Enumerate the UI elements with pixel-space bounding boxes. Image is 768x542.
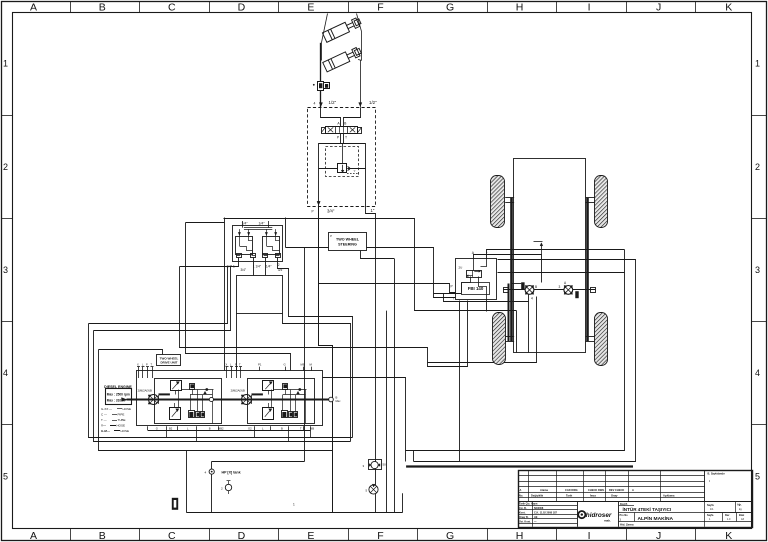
svg-text:1: 1	[293, 503, 295, 507]
svg-text:2: 2	[3, 162, 8, 172]
svg-text:G: G	[284, 362, 286, 366]
rear axle right end cap	[591, 288, 596, 293]
svg-text:E: E	[307, 1, 314, 13]
FBI inner valve	[466, 270, 481, 277]
svg-text:B: B	[99, 530, 106, 542]
revision header labels	[519, 488, 675, 498]
grid numbers left band	[3, 59, 8, 482]
revision table rows	[518, 476, 752, 502]
rear-left axle stub	[505, 336, 514, 338]
svg-text:Doğ B: Doğ B	[620, 503, 628, 506]
pump2 internal verticals	[272, 390, 306, 424]
relief pilot dashed Y line	[347, 173, 359, 175]
svg-text:1/1: 1/1	[710, 508, 714, 511]
svg-text:4: 4	[314, 102, 316, 106]
svg-text:G: G	[446, 530, 454, 542]
svg-text:T: T	[345, 136, 347, 140]
svg-text:Ağr.: Ağr.	[737, 504, 742, 507]
pump1 inner box	[155, 379, 222, 424]
arrow manifold P exit	[317, 201, 320, 205]
svg-text:AE: AE	[534, 516, 538, 519]
svg-text:C ---: C ---	[101, 413, 107, 417]
svg-text:X: X	[137, 362, 139, 366]
svg-text:İNTÜR 4TEKİ TAŞIYICI: İNTÜR 4TEKİ TAŞIYICI	[623, 506, 672, 512]
svg-text:1: 1	[3, 59, 8, 69]
svg-text:3: 3	[755, 265, 760, 275]
title block outer	[519, 471, 753, 528]
return filter RF1	[369, 484, 378, 494]
wire A to valve port A	[321, 108, 341, 127]
front-right axle stub	[586, 197, 596, 199]
svg-text:1/2": 1/2"	[329, 100, 337, 105]
wire port1 west manifold	[180, 258, 239, 267]
pump top port MB	[303, 367, 305, 371]
svg-text:MB: MB	[310, 427, 314, 431]
shaft coupling circle mid	[209, 397, 213, 401]
title cell top small row	[619, 505, 635, 507]
svg-text:REV CHECK: REV CHECK	[609, 488, 624, 492]
svg-text:Onay B.: Onay B.	[519, 516, 529, 519]
svg-text:3: 3	[559, 285, 561, 289]
svg-text:Tarih: Tarih	[566, 493, 573, 497]
wire pressure main vertical x319	[319, 206, 333, 513]
pump station text box	[157, 355, 181, 366]
wheel front-left (hatched)	[491, 176, 505, 228]
wire FBI pressure feed y283.5	[319, 284, 456, 293]
hydraulic motor HM1 (left)	[521, 282, 534, 294]
svg-text:Max: Max	[336, 399, 342, 403]
pump bottom exits	[167, 426, 311, 441]
svg-text:TWO WHEEL: TWO WHEEL	[336, 237, 360, 241]
svg-text:HOSE: HOSE	[123, 407, 132, 411]
svg-text:Sayfa: Sayfa	[707, 514, 714, 517]
hidroser logo	[578, 511, 612, 523]
wire T down to relief area	[342, 144, 344, 164]
wire left outer loop	[89, 324, 353, 438]
svg-text:HOSE: HOSE	[117, 424, 126, 428]
svg-text:F: F	[377, 530, 383, 542]
svg-text:HP [X] tank: HP [X] tank	[222, 470, 241, 474]
svg-text:G: G	[446, 1, 454, 13]
under-block junction box	[237, 276, 283, 314]
svg-text:D: D	[238, 1, 246, 13]
wire drive line to motor port	[512, 283, 522, 285]
pump2 orifice upper	[283, 384, 288, 395]
svg-text:T ---: T ---	[101, 418, 107, 422]
check valve block outer box	[224, 218, 226, 371]
svg-text:CAD DWG: CAD DWG	[565, 488, 578, 492]
wire port2 drop	[253, 258, 255, 276]
check block top gallery lines	[244, 227, 272, 229]
svg-text:B: B	[281, 427, 283, 431]
svg-text:2: 2	[278, 263, 280, 267]
wire long cross run y347.2	[180, 267, 537, 363]
breather symbol	[225, 481, 231, 495]
right small cells	[705, 501, 753, 527]
pump1 check pair lower	[196, 412, 205, 418]
svg-text:B: B	[535, 285, 537, 289]
wheel rear-right (hatched)	[595, 313, 608, 366]
pump top port G	[285, 367, 287, 371]
check valve block inner box	[233, 226, 283, 262]
pump1 gallery h line	[181, 389, 213, 391]
vehicle chassis outline	[514, 159, 586, 353]
top band column dividers	[71, 1, 696, 12]
pump bottom port labels	[156, 427, 315, 431]
svg-text:2U: 2U	[459, 266, 463, 270]
manifold enclosure (dashed) M1	[308, 108, 376, 207]
legend line 5	[101, 429, 129, 433]
svg-text:Y---: Y---	[101, 424, 106, 428]
pump2 control valve upper	[263, 381, 274, 395]
pump top port MB2	[311, 367, 313, 371]
variable pump P1 circle	[148, 393, 170, 404]
grid letters top band	[30, 1, 732, 13]
wire FBI underside to motor supply	[444, 294, 529, 302]
svg-text:B: B	[99, 1, 106, 13]
svg-text:K: K	[725, 1, 732, 13]
wire x624.5 feed from FBI 1	[624, 250, 626, 273]
svg-text:J: J	[656, 530, 661, 542]
pump bottom collection rail	[148, 430, 311, 432]
svg-text:P: P	[312, 209, 314, 213]
check block port 3	[263, 254, 268, 258]
pump1 top ports	[137, 362, 154, 378]
svg-text:A: A	[632, 488, 634, 492]
hydraulic motor HM2 (right)	[564, 285, 579, 298]
wire tank feed drop x186.4	[186, 451, 188, 513]
pump1 control valve lower	[170, 403, 181, 420]
svg-text:B: B	[336, 396, 338, 400]
drive line right (thick)	[586, 198, 589, 341]
manifold internal rail top	[318, 143, 366, 145]
arrow port A into manifold	[319, 103, 322, 107]
svg-text:B. Sayfalandır: B. Sayfalandır	[708, 472, 725, 476]
wire B to valve port B	[344, 108, 361, 127]
wire FBI A to sensor drop	[474, 255, 542, 283]
svg-text:Y: Y	[354, 169, 356, 173]
svg-text:E: E	[307, 530, 314, 542]
wire manifold T exit	[366, 144, 376, 219]
revision note cell text	[708, 472, 725, 484]
legend line 2	[101, 413, 124, 417]
pump2 control valve lower	[263, 403, 274, 420]
svg-text:FBI 140: FBI 140	[468, 286, 484, 291]
svg-text:4: 4	[531, 297, 533, 301]
svg-text:X: X	[226, 362, 228, 366]
wire valve T down	[343, 134, 345, 144]
svg-text:CHECK DWG: CHECK DWG	[588, 488, 604, 492]
svg-text:C: C	[168, 530, 176, 542]
svg-text:MB2: MB2	[218, 427, 224, 431]
shaft end circle right	[329, 397, 334, 402]
wire cylinder right line B	[360, 60, 362, 107]
wire FBI T bottom to motor line	[486, 301, 488, 312]
pump2 inner box	[248, 379, 315, 424]
svg-text:4: 4	[755, 368, 760, 378]
svg-text:Onay: Onay	[611, 493, 618, 497]
svg-text:Rev: Rev	[725, 514, 730, 517]
svg-text:I: I	[588, 530, 591, 542]
wire drain vertical x387	[386, 311, 388, 513]
svg-text:TUBE: TUBE	[118, 418, 126, 422]
svg-text:1/2": 1/2"	[369, 100, 377, 105]
wire FBI lower parallel feed	[434, 293, 462, 295]
svg-text:2(M)2A(X)B: 2(M)2A(X)B	[138, 388, 152, 392]
svg-text:1: 1	[755, 59, 760, 69]
arrow port B into manifold	[359, 103, 362, 107]
svg-text:P1: P1	[258, 362, 262, 366]
pump1 junction dot	[205, 388, 208, 391]
wire rail to relief valve	[319, 168, 338, 170]
legend line 3	[101, 418, 126, 422]
check block port 4	[276, 254, 281, 258]
svg-text:mak.: mak.	[604, 519, 611, 523]
engine to shaft link	[122, 398, 127, 402]
svg-text:Kont.: Kont.	[519, 511, 526, 514]
wire right loop inner rect	[406, 273, 625, 451]
wire port3 drop	[265, 258, 267, 276]
pilot check valve PC2	[263, 229, 280, 254]
svg-text:G: G	[156, 427, 158, 431]
wire left inner loop	[99, 350, 333, 451]
wire y311.7 drop to chassis	[516, 311, 518, 353]
svg-text:Pro No: Pro No	[620, 514, 629, 517]
svg-text:G-XX ---: G-XX ---	[101, 407, 112, 411]
diesel engine box	[106, 389, 132, 405]
svg-text:J: J	[656, 1, 661, 13]
wire left drop x185.3	[186, 223, 291, 371]
svg-text:Açıklama: Açıklama	[663, 493, 675, 497]
wire bottom rail y512.5	[186, 512, 402, 514]
svg-text:3: 3	[3, 265, 8, 275]
svg-text:Değişiklik: Değişiklik	[531, 493, 544, 497]
wire return vertical x394.5	[394, 259, 396, 513]
pilot check valve PC1	[236, 229, 253, 254]
wire relief valve to tank rail	[348, 168, 366, 170]
svg-text:P: P	[330, 234, 332, 238]
cylinder mounting plate outline	[322, 14, 328, 43]
svg-text:K: K	[725, 530, 732, 542]
svg-text:5: 5	[3, 471, 8, 481]
svg-text:T: T	[453, 297, 455, 301]
wire left mid loop top	[94, 267, 231, 331]
front-left axle stub	[505, 197, 514, 199]
svg-text:A: A	[30, 530, 37, 542]
svg-text:C: C	[168, 1, 176, 13]
svg-text:C.K. 11.02 2008 187: C.K. 11.02 2008 187	[534, 511, 558, 514]
wire left outer loop top	[89, 267, 228, 324]
wheel front-right (hatched)	[595, 176, 608, 228]
oil tank symbol (black)	[172, 498, 178, 510]
pump drive shaft (thick)	[127, 399, 329, 401]
revision table columns	[529, 470, 705, 501]
relief valve sub-enclosure (dashed)	[326, 147, 359, 177]
flow divider valve FD1 on line A	[313, 82, 330, 91]
wire textbox drop to return main	[361, 251, 395, 259]
svg-text:Ebat: Ebat	[739, 514, 744, 517]
svg-text:DRIVE UNIT: DRIVE UNIT	[160, 361, 177, 365]
rear axle cross line	[503, 289, 595, 291]
wheel rear-left (hatched)	[493, 313, 506, 365]
grid numbers right band	[755, 59, 760, 482]
wire motor1 to chassis bottom	[528, 294, 530, 352]
wire stub x402.6 up	[402, 493, 404, 512]
svg-text:NO2008: NO2008	[534, 507, 544, 510]
wire second rail y222	[186, 222, 225, 224]
wire hp tank horizontal	[212, 461, 305, 463]
pump1 relief lower-left	[189, 411, 195, 418]
svg-text:H: H	[516, 1, 524, 13]
wire cylinder left line A lower	[320, 90, 322, 107]
svg-text:P: P	[146, 362, 148, 366]
hydraulic cylinder CYL1 (top, tilted)	[322, 16, 362, 42]
legend line 1	[101, 407, 131, 411]
svg-text:D: D	[238, 530, 246, 542]
svg-text:Sayfa: Sayfa	[707, 504, 714, 507]
svg-text:P: P	[451, 284, 453, 288]
svg-text:2(M)2A(X)B: 2(M)2A(X)B	[231, 388, 245, 392]
FBI 140 label outline	[462, 283, 490, 295]
svg-text:PIPE: PIPE	[118, 413, 125, 417]
title block logo cell divider	[577, 501, 579, 527]
manifold internal left rail	[318, 144, 320, 206]
svg-text:G2: G2	[248, 427, 252, 431]
svg-text:STEERING: STEERING	[338, 243, 357, 247]
pump2 check pair lower	[289, 412, 298, 418]
pump2 gallery h line	[274, 389, 306, 391]
svg-text:1/4": 1/4"	[266, 264, 272, 268]
auxiliary thick line left axle	[508, 284, 510, 342]
pump assembly outer box	[137, 371, 323, 426]
ball valve at hp tank line	[209, 469, 214, 474]
check block port 2	[251, 254, 256, 258]
flow meter FM1	[369, 460, 382, 470]
pump2 relief lower-left	[282, 411, 288, 418]
wire hp tank drop x211.7	[211, 462, 213, 513]
svg-text:A: A	[520, 488, 522, 492]
wire thick return bottom	[406, 465, 633, 467]
svg-text:HOSE: HOSE	[121, 429, 130, 433]
wire FBI 1 to right loop	[487, 250, 625, 259]
svg-text:Üst. Kont.: Üst. Kont.	[519, 520, 531, 523]
right band row dividers	[752, 116, 767, 425]
wire right thin return link	[413, 450, 415, 461]
title cell mid divider	[619, 512, 753, 514]
left band row dividers	[1, 116, 13, 425]
svg-text:1 1/4": 1 1/4"	[253, 264, 261, 268]
svg-text:3/4": 3/4"	[327, 208, 335, 213]
relief valve RV1	[338, 164, 350, 173]
svg-text:No.: No.	[519, 493, 523, 497]
rear-right axle stub	[586, 336, 595, 338]
svg-text:F: F	[377, 1, 383, 13]
pump2 top ports	[226, 362, 243, 378]
svg-text:2: 2	[755, 162, 760, 172]
wire block right to FBI tee	[286, 248, 456, 298]
svg-text:Hid. Şema: Hid. Şema	[620, 523, 634, 527]
wire x304.2 drop	[304, 248, 306, 462]
speed sensor pointer	[534, 242, 543, 255]
wire under-block left drop	[236, 314, 238, 371]
svg-text:Atama: Atama	[540, 488, 548, 492]
svg-text:3/4": 3/4"	[241, 268, 247, 272]
svg-text:•: •	[709, 479, 710, 483]
wire valve P down	[340, 134, 342, 144]
svg-text:G-M---: G-M---	[101, 429, 110, 433]
svg-text:H: H	[516, 530, 524, 542]
title block left fields	[518, 501, 577, 527]
hydraulic cylinder CYL2 (bottom, tilted)	[323, 46, 363, 72]
wire under-block right to rail2	[283, 314, 351, 442]
pump1 control valve upper	[171, 381, 182, 395]
check block port 1	[237, 254, 242, 258]
svg-text:4: 4	[3, 368, 8, 378]
pump1 internal verticals	[179, 390, 213, 424]
svg-text:P: P	[235, 362, 237, 366]
svg-text:Çiz. B.: Çiz. B.	[519, 507, 527, 510]
wire tank main vertical x375.5	[375, 218, 377, 513]
wire left mid loop	[94, 331, 351, 442]
wire right loop outer rect	[414, 260, 636, 462]
svg-text:1": 1"	[371, 208, 375, 213]
annotation box: two wheel steering	[329, 233, 367, 251]
svg-text:B2: B2	[169, 427, 173, 431]
pump top port P1	[259, 367, 261, 371]
svg-text:5: 5	[755, 471, 760, 481]
pump1 orifice upper	[190, 384, 195, 395]
rear axle left end cap	[504, 288, 509, 293]
priority valve block FBI 140 box	[456, 259, 497, 300]
wire rear second link y366.2	[428, 301, 468, 367]
svg-text:Tarih Çiz: Yayın: Tarih Çiz: Yayın	[519, 503, 538, 506]
svg-text:1/4": 1/4"	[259, 221, 266, 225]
legend line 4	[101, 424, 125, 428]
drive line left (thick)	[510, 198, 513, 341]
svg-text:50: 50	[383, 463, 387, 467]
svg-text:B: B	[209, 427, 211, 431]
wire FBI drain to bottom loop	[459, 301, 461, 462]
wire pump B port to bottom loop	[323, 378, 406, 462]
bottom band column dividers	[71, 528, 696, 541]
directional control valve DCV1 4/3	[321, 126, 362, 133]
FBI internal piping	[462, 277, 471, 293]
variable pump P2 circle	[241, 393, 263, 404]
wire port4 to rail1	[278, 258, 353, 438]
wire top rail y218 to x414.7	[224, 219, 517, 311]
wire cylinder left line A	[320, 43, 322, 81]
svg-text:I: I	[588, 1, 591, 13]
svg-text:Max : 2500 rpm: Max : 2500 rpm	[107, 392, 130, 396]
title cell bottom divider	[619, 521, 706, 523]
svg-text:A: A	[30, 1, 37, 13]
grid letters bottom band	[30, 530, 732, 542]
pump2 junction dot	[298, 388, 301, 391]
wire left inner loop top	[99, 350, 163, 355]
